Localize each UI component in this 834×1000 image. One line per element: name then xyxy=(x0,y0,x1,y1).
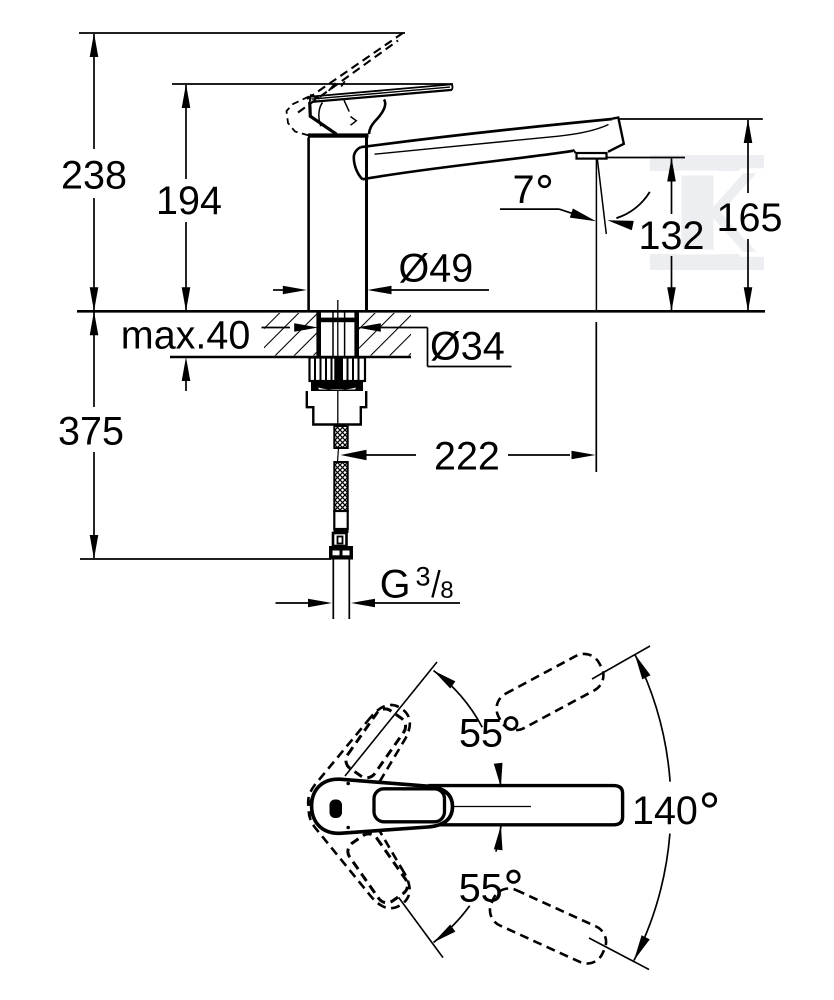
svg-text:Ø49: Ø49 xyxy=(399,246,474,290)
svg-text:222: 222 xyxy=(434,435,500,479)
svg-text:max.40: max.40 xyxy=(121,313,251,357)
svg-text:Ø34: Ø34 xyxy=(430,325,505,369)
svg-text:165: 165 xyxy=(717,196,783,240)
svg-text:140: 140 xyxy=(632,789,698,833)
svg-text:G: G xyxy=(380,563,411,607)
svg-text:8: 8 xyxy=(440,577,453,604)
svg-text:238: 238 xyxy=(61,154,127,198)
svg-text:132: 132 xyxy=(639,214,705,258)
svg-text:55: 55 xyxy=(459,712,503,756)
svg-text:3: 3 xyxy=(416,562,431,592)
svg-text:55: 55 xyxy=(459,866,503,910)
svg-text:375: 375 xyxy=(58,410,124,454)
svg-text:194: 194 xyxy=(156,179,222,223)
svg-text:7: 7 xyxy=(513,168,535,212)
